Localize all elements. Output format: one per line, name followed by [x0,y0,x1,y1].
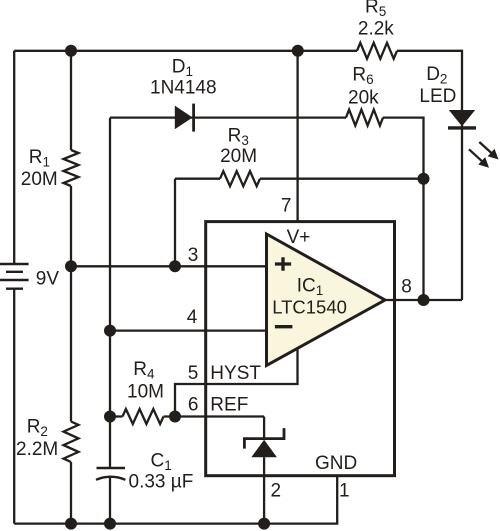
svg-text:R5: R5 [365,0,386,19]
node: bottom rail / divider [65,518,77,530]
wire REF pin 6 line [164,415,265,417]
svg-text:LED: LED [419,86,456,107]
svg-text:2.2k: 2.2k [358,19,394,40]
wire R4 left stub [110,415,123,417]
svg-text:D1: D1 [172,56,193,79]
svg-text:5: 5 [188,363,199,384]
wire HYST pin 5 step [175,350,298,417]
diode D1 [175,106,193,130]
svg-text:R3: R3 [228,125,249,148]
op-amp minus input mark [275,325,293,328]
wire left rail upper [13,51,15,264]
wire left rail lower [13,289,15,524]
wire D1 column [109,118,111,468]
svg-text:20M: 20M [220,146,257,167]
svg-text:7: 7 [281,196,292,217]
resistor R6 [346,110,383,126]
node: R3 to pin3 [169,260,181,272]
resistor R1 [64,150,79,186]
svg-text:LTC1540: LTC1540 [272,297,347,318]
wire zener / pin 2 column [263,417,265,440]
wire divider column bottom [70,462,72,524]
svg-text:R1: R1 [29,147,50,170]
svg-text:HYST: HYST [210,363,261,384]
svg-text:GND: GND [315,453,357,474]
svg-text:6: 6 [188,394,199,415]
wire pin 8 output [385,299,462,301]
LED D2 [449,110,475,126]
svg-text:C1: C1 [151,450,172,473]
svg-text:R2: R2 [27,417,48,440]
zener diode (internal reference) [244,428,284,449]
wire C1 to bottom rail [109,477,111,524]
svg-text:3: 3 [188,245,199,266]
svg-text:D2: D2 [426,64,447,87]
wire R5 to LED corner [397,51,462,300]
IC box U1 outline [206,222,395,476]
node: output pin8 [418,294,430,306]
capacitor C1 [96,468,125,480]
svg-text:1N4148: 1N4148 [150,78,217,99]
node: bottom rail / C1 [104,518,116,530]
wire R3 rail [175,178,220,180]
wire divider column middle [70,186,72,422]
node: top rail / pin7 [292,45,304,57]
svg-text:R6: R6 [352,64,373,87]
node: divider midpoint pin3 [65,260,77,272]
wire divider column top [70,51,72,150]
wire D1/R6 rail [110,116,346,118]
svg-text:20M: 20M [21,169,58,190]
wire R3 drop to pin3 node [174,179,176,267]
node: bottom rail / pin2 [258,518,270,530]
svg-text:2: 2 [271,481,282,502]
svg-text:10M: 10M [127,382,164,403]
wire bottom rail [14,476,337,524]
op-amp IC1 triangle [267,234,386,366]
svg-text:2.2M: 2.2M [16,439,58,460]
battery 9V plates [0,264,29,289]
svg-text:R4: R4 [133,359,155,382]
node: R4 left [104,411,116,423]
wire pin 3 line [71,265,266,267]
resistor R5 [357,43,397,59]
svg-text:1: 1 [339,481,350,502]
node: top rail / divider [65,45,77,57]
svg-text:20k: 20k [348,87,379,108]
node: R4 right / REF / HYST [169,411,181,423]
resistor R2 [64,422,79,463]
wire R3 to feedback column [260,178,424,180]
resistor R4 [123,409,164,424]
svg-text:REF: REF [210,394,248,415]
wire pin 7 vertical [296,51,298,222]
svg-text:8: 8 [401,277,412,298]
op-amp plus input mark [275,257,291,270]
resistor R3 [220,171,260,186]
svg-text:4: 4 [187,307,198,328]
svg-text:9V: 9V [36,269,60,290]
svg-text:V+: V+ [287,227,311,248]
node: pin4 / C column [104,325,116,337]
svg-text:0.33 µF: 0.33 µF [129,472,194,493]
LED emission arrows [469,142,499,168]
wire pin 4 line [110,329,266,331]
wire R6 to feedback column [383,118,424,300]
node: feedback / R3 [418,173,430,185]
wire top rail [14,50,357,52]
